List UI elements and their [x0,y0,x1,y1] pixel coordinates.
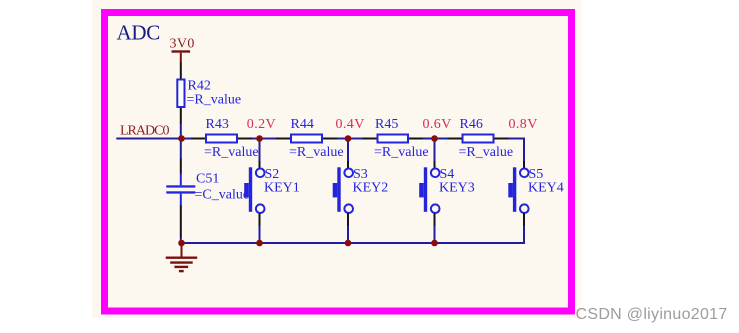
node 0.2V [247,117,276,132]
svg-text:R45: R45 [375,117,398,132]
junction (0.4V node) [345,135,352,142]
ground [166,246,198,271]
resistor R42 [177,62,241,124]
resistor R44 [276,117,344,160]
node 0.8V [509,117,538,132]
svg-text:R43: R43 [206,117,229,132]
svg-text:0.4V: 0.4V [336,117,365,132]
svg-text:R42: R42 [188,79,211,94]
svg-text:C51: C51 [196,172,219,187]
sheet background [92,0,581,318]
wire (node 0.8V corner) [509,139,525,162]
svg-text:=R_value: =R_value [459,145,514,160]
wire (node 0.2V rail) [252,138,276,140]
switch S2 KEY1 [244,161,300,226]
resistor R43 [191,117,259,160]
capacitor C51 [166,159,249,239]
switch S3 KEY2 [333,161,389,226]
junction (LRADC0 node) [178,135,185,142]
svg-text:=R_value: =R_value [289,145,344,160]
svg-text:0.8V: 0.8V [509,117,538,132]
wire (C51 top lead) [180,139,182,159]
svg-text:=C_value: =C_value [195,188,250,203]
wire (R42 bottom to node LRADC0) [180,124,182,139]
wire (LRADC0 stub) [116,138,191,140]
svg-text:KEY3: KEY3 [439,181,475,196]
svg-text:R44: R44 [291,117,314,132]
junction (S4 bottom) [431,240,438,247]
node 0.4V [336,117,365,132]
resistor R45 [363,117,429,160]
wire (0.6V to S4) [434,139,436,162]
svg-text:=R_value: =R_value [204,145,259,160]
wire (node 0.6V rail) [423,138,448,140]
svg-text:KEY4: KEY4 [528,181,564,196]
svg-text:=R_value: =R_value [187,93,242,108]
svg-text:R46: R46 [460,117,483,132]
wire (S2 to bottom rail) [259,226,261,243]
net label LRADC0 [120,124,169,139]
svg-text:ADC: ADC [117,21,160,45]
power 3V0 [170,37,195,63]
title ADC [117,21,160,45]
svg-text:KEY2: KEY2 [353,181,389,196]
wire (S5 to bottom rail corner) [435,226,525,243]
switch S5 KEY4 [508,161,563,226]
wire (bottom rail) [182,242,435,244]
wire (C51 bottom lead) [180,238,182,243]
svg-text:0.2V: 0.2V [247,117,276,132]
junction (0.2V node) [256,135,263,142]
svg-text:0.6V: 0.6V [423,117,452,132]
junction (S2 bottom) [256,240,263,247]
junction (S3 bottom) [345,240,352,247]
wire (0.4V to S3) [347,139,349,162]
junction (ground node) [178,240,185,247]
svg-text:CSDN @liyinuo2017: CSDN @liyinuo2017 [576,306,728,323]
node 0.6V [423,117,452,132]
resistor R46 [448,117,514,160]
svg-text:3V0: 3V0 [170,37,195,52]
junction (0.6V node) [431,135,438,142]
switch S4 KEY3 [419,161,475,226]
wire (S3 to bottom rail) [347,226,349,243]
wire (node 0.4V rail) [337,138,363,140]
wire (0.2V to S2) [259,139,261,162]
wire (S4 to bottom rail) [434,226,436,243]
watermark text [576,306,728,323]
svg-text:LRADC0: LRADC0 [120,124,169,139]
svg-text:KEY1: KEY1 [264,181,300,196]
svg-text:=R_value: =R_value [374,145,429,160]
